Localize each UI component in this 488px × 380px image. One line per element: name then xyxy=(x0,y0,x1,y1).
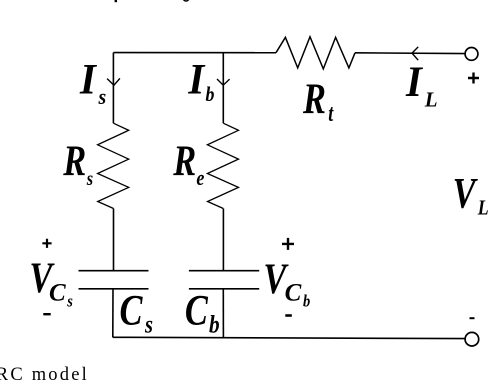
svg-text:V: V xyxy=(453,170,479,217)
resistor Rs xyxy=(98,123,129,208)
svg-text:L: L xyxy=(477,197,488,220)
svg-text:b: b xyxy=(209,311,220,339)
svg-text:L: L xyxy=(424,88,438,112)
resistor Rt xyxy=(276,37,355,69)
svg-text:b: b xyxy=(206,84,215,107)
svg-text:e: e xyxy=(196,166,204,190)
wire middle branch lower (Cb to bottom wire) xyxy=(222,289,224,338)
svg-text:I: I xyxy=(405,59,424,106)
svg-text:s: s xyxy=(144,311,153,338)
label Cs xyxy=(120,287,154,338)
svg-text:C: C xyxy=(285,280,302,307)
svg-text:I: I xyxy=(187,57,206,104)
caption RC model xyxy=(0,365,89,380)
polarity - VCb xyxy=(285,314,292,317)
label Rs xyxy=(62,138,93,190)
label VCb xyxy=(263,255,310,310)
polarity + VCb xyxy=(282,238,294,250)
label VCs xyxy=(29,254,72,310)
label Ib xyxy=(187,57,214,106)
label Is xyxy=(79,57,106,109)
svg-text:s: s xyxy=(86,168,93,190)
label IL xyxy=(405,59,438,111)
svg-text:C: C xyxy=(49,279,66,306)
svg-text:s: s xyxy=(98,84,107,109)
capacitor Cs xyxy=(79,271,149,289)
wire top left (node A to Rt) xyxy=(113,52,276,54)
capacitor Cb xyxy=(189,271,259,289)
svg-text:I: I xyxy=(79,57,98,104)
polarity + (top right) xyxy=(468,73,479,84)
label VL xyxy=(453,170,488,220)
resistor Re xyxy=(207,123,238,208)
current arrow IL xyxy=(412,47,418,60)
wire left branch mid (Rs to Cs) xyxy=(113,209,115,271)
label Rt xyxy=(302,75,334,126)
wire left branch lower (Cs to bottom wire) xyxy=(112,289,114,338)
svg-text:R: R xyxy=(172,138,196,185)
top cut-off text fragment 1 xyxy=(115,0,117,2)
svg-text:s: s xyxy=(66,292,73,310)
svg-text:b: b xyxy=(303,292,310,310)
polarity - (bottom right) xyxy=(470,317,475,319)
current arrow Ib xyxy=(217,79,230,85)
polarity + VCs xyxy=(42,239,51,248)
svg-text:RC model: RC model xyxy=(0,365,89,380)
wire left branch upper xyxy=(112,53,114,124)
polarity - VCs xyxy=(43,313,50,315)
terminal - (bottom right) xyxy=(465,332,479,346)
top cut-off text fragment 2 xyxy=(183,0,188,1)
label Cb xyxy=(185,287,220,339)
wire top right (Rt to + terminal) xyxy=(355,52,465,55)
current arrow Is xyxy=(107,78,120,85)
svg-text:R: R xyxy=(302,75,326,122)
wire middle branch upper xyxy=(222,53,224,124)
wire middle branch mid (Re to Cb) xyxy=(222,209,224,271)
svg-text:C: C xyxy=(185,287,209,334)
label Re xyxy=(172,138,204,191)
svg-text:R: R xyxy=(62,138,86,185)
wire bottom xyxy=(113,337,465,338)
terminal + (top right) xyxy=(465,48,478,61)
svg-text:C: C xyxy=(120,287,144,334)
